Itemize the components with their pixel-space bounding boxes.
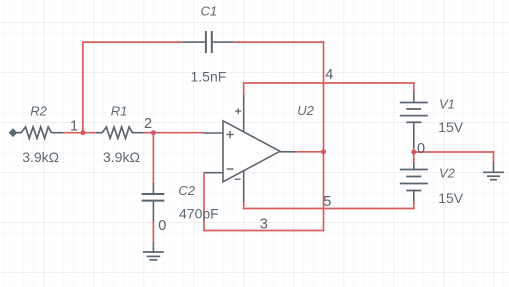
ground right of node 0 xyxy=(483,163,504,180)
svg-text:V2: V2 xyxy=(439,166,456,181)
svg-text:3.9kΩ: 3.9kΩ xyxy=(22,149,59,165)
wire net4 horizontal xyxy=(243,82,415,84)
wire net3 vertical up to inverting input xyxy=(203,172,205,231)
wire top row left of C1 xyxy=(82,41,182,43)
svg-text:1.5nF: 1.5nF xyxy=(191,69,227,85)
op-amp - input sign xyxy=(227,168,234,170)
svg-text:15V: 15V xyxy=(438,190,464,206)
wire node1 up to C1 row xyxy=(82,42,84,133)
svg-text:3: 3 xyxy=(260,217,268,233)
svg-text:U2: U2 xyxy=(297,103,314,118)
svg-text:1: 1 xyxy=(70,119,78,135)
ground below C2 xyxy=(143,243,164,260)
wire vertical C1/output/net3 at x=323.5 xyxy=(323,41,325,231)
wire net5 horizontal xyxy=(243,208,415,210)
op-amp V- sign xyxy=(235,178,241,180)
output node dot xyxy=(321,149,326,154)
capacitor C2 xyxy=(142,183,165,221)
svg-text:15V: 15V xyxy=(438,119,464,135)
resistor R1 xyxy=(96,127,144,138)
wire net3 horizontal xyxy=(203,230,324,232)
input terminal diamond xyxy=(9,129,21,136)
capacitor C1 xyxy=(182,31,234,53)
wire right ground drop xyxy=(493,151,495,163)
svg-text:5: 5 xyxy=(323,194,331,210)
svg-text:3.9kΩ: 3.9kΩ xyxy=(103,149,140,165)
wire node1 row xyxy=(63,132,95,134)
svg-text:470pF: 470pF xyxy=(179,205,219,221)
wire op-amp output xyxy=(295,151,324,153)
wire net4 op-amp V+ stub xyxy=(243,82,245,94)
op-amp V+ sign xyxy=(235,108,241,114)
node 1 xyxy=(81,130,86,135)
wire node2 row to op-amp xyxy=(144,132,205,134)
resistor R2 xyxy=(17,127,64,138)
svg-text:V1: V1 xyxy=(439,97,455,112)
wire V2 bottom to net5 xyxy=(413,201,415,210)
battery V1 xyxy=(400,92,428,149)
wire node 0 to right ground xyxy=(414,151,495,153)
svg-text:2: 2 xyxy=(144,116,152,132)
battery V2 xyxy=(400,162,428,201)
wire at node 0 vertical xyxy=(413,148,415,163)
wire node2 down to C2 xyxy=(152,133,154,184)
wire net4 down to V1 xyxy=(413,82,415,92)
wire C2 bottom to ground xyxy=(152,221,154,244)
svg-text:C2: C2 xyxy=(178,183,195,198)
svg-text:4: 4 xyxy=(325,67,333,83)
svg-text:0: 0 xyxy=(158,218,166,234)
node 0 xyxy=(411,150,416,155)
node 2 xyxy=(151,130,156,135)
svg-text:C1: C1 xyxy=(201,4,218,19)
svg-text:0: 0 xyxy=(417,141,425,157)
op-amp U2 xyxy=(203,94,295,202)
wire op-amp V- stub to net5 xyxy=(243,202,245,210)
wire top row right of C1 xyxy=(234,41,324,43)
op-amp + input sign xyxy=(226,131,233,138)
svg-text:R1: R1 xyxy=(111,103,128,118)
svg-text:R2: R2 xyxy=(30,103,47,118)
